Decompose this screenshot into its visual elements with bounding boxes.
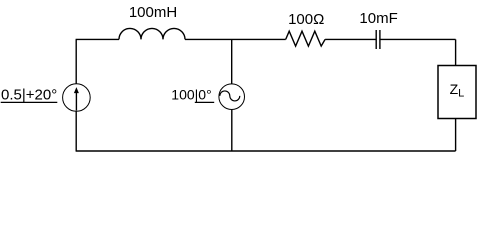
- current source arrow shaft: [75, 90, 77, 111]
- current source arrowhead: [74, 87, 79, 93]
- load box ZL: [438, 66, 476, 119]
- svg-text:100mH: 100mH: [129, 4, 177, 21]
- wire middle branch lower: [231, 110, 233, 151]
- wire right branch upper: [455, 39, 457, 65]
- capacitor 10mF plate left: [375, 30, 377, 49]
- wire resistor-to-capacitor: [325, 38, 376, 40]
- wire top-left segment: [76, 38, 119, 40]
- svg-text:100Ω: 100Ω: [288, 11, 324, 28]
- svg-text:10mF: 10mF: [359, 10, 397, 27]
- svg-text:100|0°: 100|0°: [171, 87, 211, 103]
- voltage source sine wave: [220, 91, 240, 101]
- wire left branch upper: [75, 39, 77, 83]
- underline of current source label: [1, 101, 58, 103]
- voltage source V1 circle: [219, 84, 245, 110]
- underline of voltage source angle: [195, 101, 214, 103]
- wire top-right segment: [380, 38, 456, 40]
- wire left branch lower: [75, 111, 77, 151]
- resistor 100ohm: [286, 31, 325, 46]
- inductor 100mH: [119, 28, 185, 39]
- current source I1 circle: [63, 84, 91, 112]
- wire bottom: [76, 150, 456, 152]
- svg-text:ZL: ZL: [450, 81, 465, 100]
- wire right branch lower: [455, 119, 457, 152]
- wire top-middle segment: [185, 38, 286, 40]
- capacitor 10mF plate right: [379, 30, 381, 49]
- wire middle branch upper: [231, 39, 233, 84]
- svg-text:0.5|+20°: 0.5|+20°: [1, 86, 57, 103]
